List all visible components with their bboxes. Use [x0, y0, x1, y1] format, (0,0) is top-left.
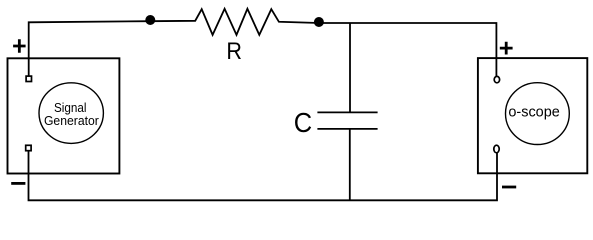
svg-text:o-scope: o-scope [508, 104, 560, 121]
svg-text:C: C [294, 107, 312, 138]
svg-text:Generator: Generator [44, 113, 100, 128]
svg-text:R: R [226, 38, 242, 65]
